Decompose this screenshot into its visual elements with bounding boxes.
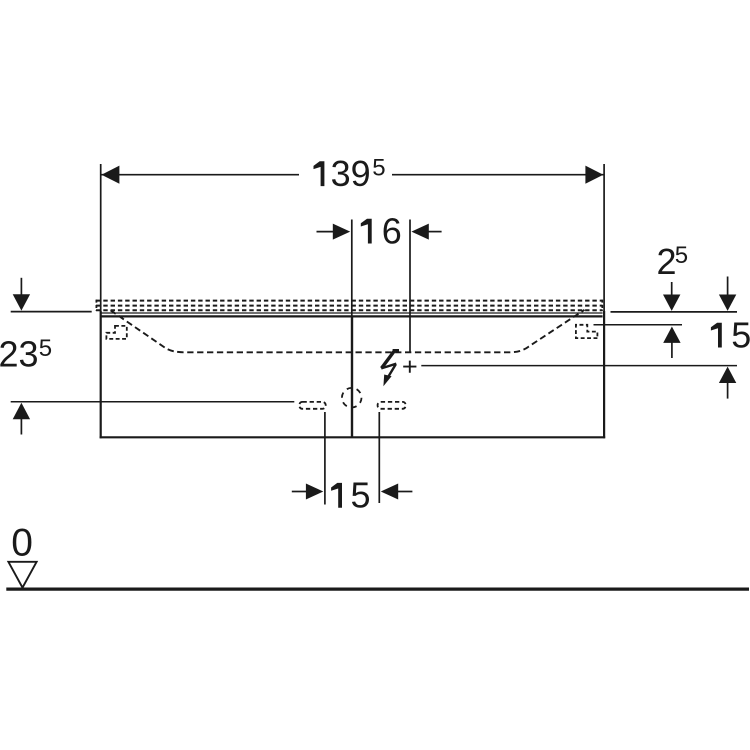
left 23.5 down arrow tail [20,278,22,296]
washbasin slab dashed middle line [96,305,603,307]
2.5 up arrowhead [663,327,680,343]
extension line right (width 139.5) [603,164,605,311]
bottom 15 extension line right [378,412,380,503]
svg-text:5: 5 [351,475,371,516]
2.5 down arrowhead [663,295,680,311]
cabinet centre divider [351,317,353,437]
cabinet bottom edge [100,436,606,438]
washbasin slab dashed top line [96,300,603,302]
2.5 up arrow tail [671,342,673,358]
bottom 15 left arrowhead [306,484,323,500]
power supply lightning top bar [393,349,399,352]
arrowhead 139.5 right [585,166,603,184]
drawer bracket dashed box right [576,325,598,338]
left 23.5 down arrowhead [13,294,30,310]
drain cutout dashed box left [299,402,325,409]
bottom 15 right arrow tail [398,491,413,493]
right 15 down arrow tail [727,277,729,295]
power supply plus sign [403,361,416,373]
dimension line 139.5 right segment [392,174,604,176]
extension line left (cabinet left edge, width 139.5) [100,164,102,311]
bottom 15 extension line left [324,412,326,505]
washbasin slab dashed bottom line [96,309,603,311]
svg-text:2: 2 [657,241,677,282]
dimension 16 left arrowhead [333,224,350,240]
leader line drain level left [11,401,295,403]
bottom 15 right arrowhead [381,484,398,500]
right 15 down arrowhead [719,295,736,311]
cabinet top edge thin line [100,312,603,314]
dimension text 15 bottom digit 1 (drawn) [331,483,342,508]
2.5 down arrow tail [671,282,673,296]
svg-text:0: 0 [11,522,33,565]
svg-text:39: 39 [331,153,371,194]
extension line 16 left / cabinet centre divider [351,220,353,318]
drain cutout dashed box right [378,402,406,409]
left 23.5 up arrowhead [13,403,30,419]
svg-text:23: 23 [0,334,39,375]
cabinet top front edge thick line [100,315,603,317]
dimension text 139.5 digit 1 (drawn) [314,161,325,186]
basin bowl hidden outline (dashed) [111,310,585,353]
dimension text 16 digit 1 (drawn) [361,219,372,244]
drain dashed circle [342,388,362,408]
dimension text 15 right digit 1 (drawn) [711,323,722,348]
dimension 16 right arrowhead [411,224,428,240]
floor line [6,587,749,590]
extension line 16 right [409,220,411,353]
washbasin slab dashed left end cap [95,300,97,311]
svg-text:6: 6 [382,210,402,251]
svg-text:5: 5 [39,335,52,362]
power supply lightning arrowhead [383,375,391,387]
svg-text:5: 5 [731,315,750,356]
washbasin slab dashed right end cap [601,300,603,311]
floor level triangle [8,562,36,588]
dimension line 139.5 left segment [101,174,299,176]
power supply lightning lower diagonal [387,364,396,379]
svg-text:5: 5 [675,242,688,269]
leader line top-of-cabinet right [611,311,738,313]
right 15 up arrow tail [727,382,729,399]
svg-text:5: 5 [372,155,385,182]
drawer bracket dashed box left [106,326,126,339]
dimension 16 right arrow tail [428,231,442,233]
leader line bracket level right [594,324,683,326]
dimension 16 left arrow tail [317,231,335,233]
right 15 up arrowhead [719,367,736,383]
power supply lightning middle bar [381,364,396,369]
leader line power level right [421,365,737,367]
cabinet left side panel [100,311,102,438]
arrowhead 139.5 left [102,166,120,184]
bottom 15 left arrow tail [292,491,307,493]
cabinet right side panel [603,311,605,438]
leader line top-of-cabinet left [11,311,92,313]
power supply lightning upper diagonal [382,351,395,368]
left 23.5 up arrow tail [20,418,22,435]
